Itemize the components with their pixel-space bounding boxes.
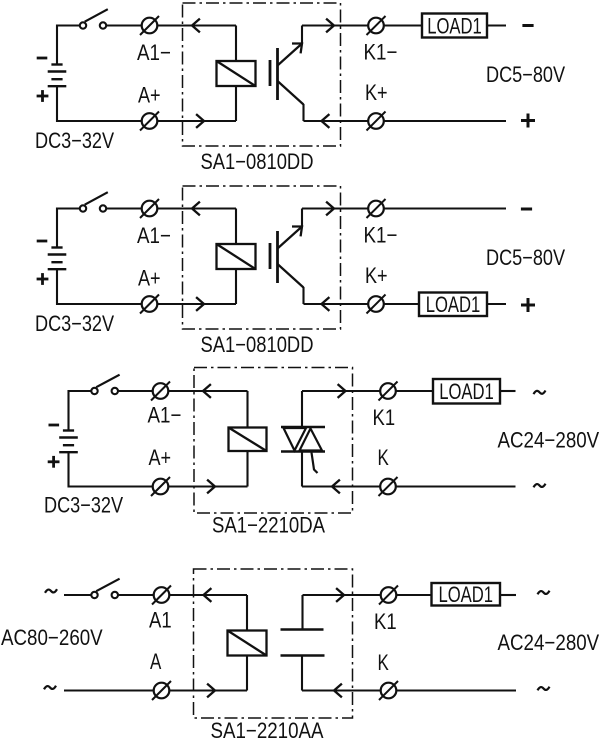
svg-text:DC3−32V: DC3−32V — [35, 311, 114, 336]
terminal A+ (screw terminal circle with slash) — [140, 295, 159, 314]
svg-text:A1−: A1− — [137, 40, 171, 65]
SSR module outline SA1-0810DD (dash-dot border) — [183, 3, 341, 146]
bottom-right wire out of box — [302, 689, 381, 691]
wire triac bottom down — [301, 452, 303, 487]
load box LOAD1 circuit3 — [433, 379, 500, 404]
wire terminal A1- to box — [157, 207, 236, 209]
wire switch to terminal A1- — [106, 24, 142, 26]
relay coil K3 coil (rectangle with diagonal) — [229, 428, 267, 452]
output minus sign — [522, 24, 533, 27]
relay coil K2 coil (rectangle with diagonal) — [217, 244, 256, 269]
bottom wire relay to terminal A+ — [168, 485, 248, 487]
arrow into box (bottom right, pointing left) — [322, 114, 330, 128]
switch S4 — [91, 579, 119, 599]
svg-text:LOAD1: LOAD1 — [438, 582, 493, 607]
svg-text:AC24−280V: AC24−280V — [498, 630, 600, 655]
bottom wire relay to terminal A — [169, 689, 247, 691]
battery plus sign — [37, 273, 49, 285]
svg-text:K1−: K1− — [364, 40, 398, 65]
wire relay coil to bottom wire — [235, 269, 237, 304]
terminal K1- (screw terminal circle with slash) — [367, 16, 386, 35]
wire battery vertical bottom — [56, 86, 58, 122]
wire battery vertical top — [56, 25, 58, 65]
svg-text:A+: A+ — [149, 445, 172, 470]
arrow out of box (top right) — [326, 19, 334, 33]
wire battery vertical bottom — [56, 269, 58, 305]
load box LOAD1 circuit4 — [432, 582, 501, 607]
svg-text:DC3−32V: DC3−32V — [35, 128, 114, 153]
svg-text:SA1−2210DA: SA1−2210DA — [212, 513, 325, 538]
SSR module outline SA1-2210AA (dash-dot border) — [194, 569, 353, 718]
terminal A1- (screw terminal circle with slash) — [140, 16, 159, 35]
AC tilde top right — [538, 591, 550, 595]
load box LOAD1 (bottom) — [419, 292, 487, 317]
bottom-right wire out of box — [304, 120, 369, 122]
arrow into box (left, top wire) — [204, 588, 212, 602]
wire terminal A1- to box — [157, 24, 236, 26]
svg-text:LOAD1: LOAD1 — [439, 379, 494, 404]
svg-text:LOAD1: LOAD1 — [426, 292, 481, 317]
wire K1 to LOAD1 — [396, 390, 434, 392]
terminal K1- (screw terminal circle with slash) — [367, 199, 386, 218]
svg-text:K+: K+ — [365, 263, 388, 288]
output contact (normally open) stage — [281, 630, 325, 656]
wire LOAD1 to AC terminal — [500, 594, 516, 596]
wire down to relay coil — [246, 595, 248, 631]
switch S1 — [80, 9, 108, 29]
wire LOAD1 to minus terminal — [487, 24, 506, 26]
phototransistor output stage (IGBT symbol) circuit 2 — [270, 227, 304, 288]
svg-text:A: A — [150, 649, 162, 674]
bottom wire relay to terminal A+ — [157, 303, 236, 305]
terminal K+ (screw terminal circle with slash) — [367, 112, 386, 131]
arrow into box (bottom right, pointing left) — [334, 684, 342, 698]
wire terminal A+ to battery — [57, 303, 142, 305]
wire relay coil to bottom wire — [246, 451, 248, 487]
switch S2 — [80, 192, 108, 212]
svg-text:K1−: K1− — [364, 223, 398, 248]
svg-text:DC5−80V: DC5−80V — [486, 245, 565, 270]
svg-text:K: K — [378, 650, 390, 675]
terminal A1 (screw terminal circle with slash) — [152, 586, 171, 605]
wire battery top to switch — [57, 207, 80, 209]
svg-text:DC3−32V: DC3−32V — [44, 493, 123, 518]
arrow on bottom wire (pointing right) — [207, 684, 215, 698]
terminal K+ (screw terminal circle with slash) — [367, 295, 386, 314]
terminal K (screw terminal circle with slash) — [379, 681, 398, 700]
terminal K1 (screw terminal circle with slash) — [379, 382, 398, 401]
terminal A (screw terminal circle with slash) — [152, 681, 171, 700]
wire relay coil to bottom wire — [235, 86, 237, 121]
SSR module outline SA1-2210DA (dash-dot border) — [194, 368, 353, 514]
AC tilde input top left — [45, 589, 57, 593]
svg-text:AC80−260V: AC80−260V — [1, 625, 103, 650]
output plus sign — [521, 114, 535, 128]
terminal A+ (screw terminal circle with slash) — [151, 477, 170, 496]
bottom-right wire out of box — [302, 485, 381, 487]
arrow out of box (top right) — [326, 202, 334, 216]
triac output stage — [281, 427, 325, 473]
wire terminal A1- to box — [168, 390, 248, 392]
svg-text:A1−: A1− — [137, 223, 171, 248]
svg-text:K1: K1 — [374, 609, 397, 634]
bottom-right wire out of box — [304, 303, 369, 305]
wire contact bottom down — [301, 656, 303, 691]
svg-text:LOAD1: LOAD1 — [427, 13, 482, 38]
switch S3 — [91, 375, 119, 394]
svg-text:DC5−80V: DC5−80V — [486, 62, 565, 87]
relay coil K1 coil (rectangle with diagonal) — [217, 61, 256, 86]
battery minus sign — [37, 57, 48, 60]
wire emitter down — [302, 104, 304, 121]
top-right wire out of box — [303, 594, 382, 596]
arrow out of box (top right) — [336, 588, 344, 602]
arrow out of box (top right) — [338, 384, 346, 398]
wire down to relay coil — [246, 391, 248, 428]
wire K1- to LOAD1 — [384, 24, 423, 26]
relay coil K4 coil (rectangle with diagonal) — [228, 631, 267, 656]
terminal A+ (screw terminal circle with slash) — [140, 112, 159, 131]
svg-text:K: K — [378, 445, 390, 470]
wire switch to terminal A1 — [118, 594, 154, 596]
load box LOAD1 (top) — [422, 13, 487, 38]
terminal K1 (screw terminal circle with slash) — [379, 586, 398, 605]
wire battery top to switch — [69, 390, 92, 392]
wire battery vertical bottom — [67, 452, 69, 488]
wire LOAD1 to AC terminal — [500, 390, 516, 392]
wire triac top to top-right wire — [301, 391, 303, 427]
battery minus sign — [49, 424, 60, 427]
wire input top to switch — [64, 594, 92, 596]
wire K+ to plus terminal — [384, 120, 507, 122]
output plus sign — [521, 298, 535, 312]
battery B2 DC3-32V — [48, 248, 67, 270]
wire K1- to minus terminal — [384, 207, 507, 209]
svg-text:SA1−0810DD: SA1−0810DD — [201, 332, 314, 357]
wire terminal A1 to box — [169, 594, 247, 596]
battery B1 DC3-32V — [48, 65, 67, 87]
svg-text:A1: A1 — [149, 608, 172, 633]
wire collector to top-right wire — [301, 26, 303, 45]
svg-text:K+: K+ — [365, 80, 388, 105]
battery plus sign — [48, 456, 60, 468]
output minus sign — [521, 208, 532, 211]
SSR module outline SA1-0810DD (dash-dot border) — [183, 186, 341, 329]
arrow into box (left, top wire) — [192, 202, 200, 216]
battery plus sign — [37, 90, 49, 102]
terminal K (screw terminal circle with slash) — [379, 477, 398, 496]
wire collector to top-right wire — [301, 209, 303, 228]
arrowhead on collector diagonal — [292, 227, 302, 237]
battery B3 DC3-32V — [59, 431, 78, 453]
svg-text:A+: A+ — [138, 266, 161, 291]
wire battery vertical top — [67, 390, 69, 431]
svg-text:SA1−2210AA: SA1−2210AA — [211, 718, 324, 738]
arrow on bottom wire (pointing right) — [196, 114, 204, 128]
arrow into box (bottom right, pointing left) — [332, 480, 340, 494]
arrow into box (left, top wire) — [203, 384, 211, 398]
terminal A1- (screw terminal circle with slash) — [140, 199, 159, 218]
terminal A1- (screw terminal circle with slash) — [151, 382, 170, 401]
svg-text:A1−: A1− — [148, 403, 182, 428]
bottom wire relay to terminal A+ — [157, 120, 236, 122]
arrow into box (bottom right, pointing left) — [322, 297, 330, 311]
arrow on bottom wire (pointing right) — [196, 297, 204, 311]
wire down to relay coil — [235, 26, 237, 62]
wire switch to terminal A1- — [106, 207, 142, 209]
wire switch to terminal A1- — [118, 390, 153, 392]
AC tilde input bottom left — [44, 686, 56, 690]
svg-text:SA1−0810DD: SA1−0810DD — [201, 149, 314, 174]
AC tilde top right — [534, 391, 546, 395]
svg-text:K1: K1 — [373, 405, 396, 430]
wire contact top to top-right wire — [301, 595, 303, 630]
wire LOAD1 to plus terminal — [487, 303, 506, 305]
wire terminal A+ to battery — [57, 120, 142, 122]
svg-text:A+: A+ — [138, 83, 161, 108]
wire K+ to LOAD1 — [384, 303, 420, 305]
arrowhead on collector diagonal — [292, 44, 302, 54]
wire emitter down — [302, 287, 304, 304]
top-right wire out of box — [302, 207, 369, 209]
phototransistor output stage (IGBT symbol) circuit 1 — [270, 44, 304, 105]
wire terminal A to input — [64, 689, 154, 691]
wire battery vertical top — [56, 208, 58, 248]
wire relay coil to bottom wire — [246, 656, 248, 691]
AC tilde bottom right — [538, 687, 550, 691]
wire terminal A+ to battery — [69, 485, 154, 487]
AC tilde bottom right — [534, 484, 546, 488]
top-right wire out of box — [302, 24, 369, 26]
arrow into box (left, top wire) — [192, 19, 200, 33]
wire down to relay coil — [235, 209, 237, 245]
svg-text:AC24−280V: AC24−280V — [498, 428, 600, 453]
wire K1 to LOAD1 — [396, 594, 432, 596]
wire battery top to switch — [57, 24, 80, 26]
wire K to AC terminal — [396, 485, 516, 487]
top-right wire out of box — [302, 390, 381, 392]
wire K to AC terminal — [396, 689, 516, 691]
battery minus sign — [37, 240, 48, 243]
arrow on bottom wire (pointing right) — [207, 480, 215, 494]
